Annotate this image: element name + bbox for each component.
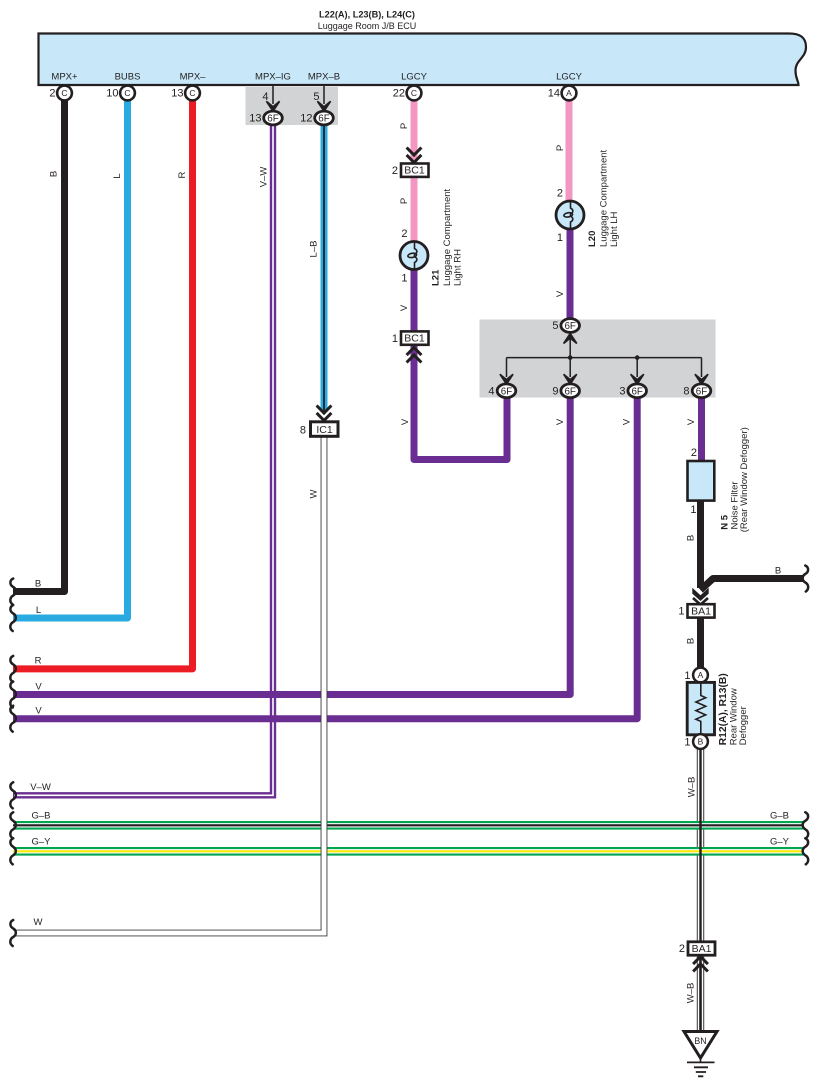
page-edge break of wire L: [10, 605, 16, 631]
svg-text:MPX–B: MPX–B: [308, 72, 340, 83]
svg-text:P: P: [399, 198, 410, 204]
pin 2 (C) of ECU: [49, 86, 72, 101]
svg-text:12: 12: [300, 113, 312, 125]
page-edge break of wire W: [10, 920, 16, 946]
wire P from LGCY 22 through BC1 to bulb L21: [411, 99, 418, 243]
svg-text:C: C: [411, 88, 417, 98]
svg-text:2: 2: [392, 165, 398, 177]
wire W-B center stripe redrawn over green crossings: [699, 749, 701, 943]
page-edge break of wire V (pin 9): [10, 682, 16, 708]
svg-text:13: 13: [171, 88, 183, 100]
defogger terminal A: [684, 668, 708, 683]
label V to pin 4: [400, 418, 411, 425]
connector 8 IC1: [300, 422, 338, 437]
node 4 (6F): [488, 384, 515, 398]
svg-text:V: V: [35, 682, 42, 693]
svg-text:22: 22: [393, 88, 405, 100]
svg-text:MPX+: MPX+: [51, 72, 78, 83]
svg-text:A: A: [698, 670, 704, 680]
svg-text:G–Y: G–Y: [770, 836, 790, 847]
wire V-W (violet-white) from 6F pin 13 down and left to page edge: [13, 120, 273, 795]
label R (MPX- wire): [177, 171, 188, 178]
svg-text:LGCY: LGCY: [556, 72, 583, 83]
svg-text:Light LH: Light LH: [609, 211, 620, 247]
svg-text:B: B: [698, 737, 704, 747]
label V below L21: [399, 304, 410, 311]
component name L21: [431, 269, 442, 286]
svg-text:(Rear Window Defogger): (Rear Window Defogger): [739, 427, 750, 532]
page-edge break of wire G-Y right: [803, 838, 809, 864]
wire P from LGCY 14 to bulb L20: [566, 99, 573, 203]
label B above BA1: [686, 535, 697, 541]
pin 14 (A) of ECU: [548, 86, 577, 101]
svg-text:BA1: BA1: [691, 605, 711, 617]
svg-text:L22(A), L23(B), L24(C): L22(A), L23(B), L24(C): [319, 10, 415, 20]
bulb L20 Luggage Compartment Light LH: [556, 201, 584, 229]
wire W (white) from IC1 down and left to page edge: [13, 436, 324, 933]
wire V from 6F pin 3 down and left to page edge: [13, 398, 637, 719]
svg-text:W–B: W–B: [687, 777, 698, 798]
node 5 (6F) of middle panel: [552, 319, 579, 333]
svg-text:MPX–: MPX–: [180, 72, 207, 83]
component name N5: [719, 514, 730, 530]
svg-text:BC1: BC1: [404, 333, 425, 345]
rear window defogger R12(A), R13(B): [687, 682, 714, 734]
label W vertical: [309, 489, 320, 498]
pin 5 lead into junction connector: [313, 85, 330, 111]
node 9 (6F): [552, 384, 579, 398]
pin 10 (C) of ECU: [106, 86, 135, 101]
bus line inside middle panel: [500, 332, 708, 384]
svg-text:W: W: [309, 489, 320, 498]
svg-text:V–W: V–W: [30, 782, 51, 793]
svg-text:4: 4: [488, 386, 494, 398]
ground symbol: [687, 1058, 715, 1076]
label B below BA1: [686, 638, 697, 644]
wire V from bulb L20 to 6F pin 5: [567, 228, 574, 318]
svg-text:V: V: [35, 706, 42, 717]
component name L20: [587, 231, 598, 247]
label P lower (L21): [399, 198, 410, 204]
svg-text:P: P: [555, 145, 566, 151]
junction dot at 9 branch: [568, 355, 573, 360]
pin 22 (C) of ECU: [393, 86, 422, 101]
wire G-Y across page: [13, 847, 803, 856]
svg-text:R: R: [177, 171, 188, 178]
svg-text:2: 2: [679, 943, 685, 955]
wire B from BA1 to defogger terminal A: [697, 618, 704, 669]
svg-text:W–B: W–B: [686, 983, 697, 1004]
label L (BUBS wire): [112, 173, 123, 178]
svg-text:Light RH: Light RH: [452, 249, 463, 286]
wire W-B from BA1 (2) to ground BN: [697, 955, 704, 1032]
label L-B vertical: [309, 241, 320, 258]
svg-text:LGCY: LGCY: [401, 72, 428, 83]
svg-text:1: 1: [684, 737, 690, 749]
svg-text:C: C: [61, 88, 67, 98]
bulb L21 Luggage Compartment Light RH: [400, 242, 428, 270]
svg-text:R: R: [35, 656, 42, 667]
junction block internal panel (top, MPX-IG/MPX-B): [246, 87, 339, 125]
svg-text:B: B: [775, 566, 781, 577]
connector arrows out of 2 BA1: [693, 957, 708, 972]
label V above pin 5: [555, 290, 566, 297]
svg-text:BC1: BC1: [404, 165, 425, 177]
svg-text:L20: L20: [587, 231, 598, 247]
svg-text:B: B: [49, 171, 60, 177]
svg-text:V: V: [400, 418, 411, 425]
connector arrows into 8 IC1: [317, 406, 332, 421]
svg-text:B: B: [35, 579, 41, 590]
label V below pin 8: [686, 418, 697, 425]
svg-text:2: 2: [401, 228, 407, 240]
svg-text:V: V: [555, 290, 566, 297]
wire V from 6F pin 8 to noise filter N5: [698, 398, 705, 462]
connector 12 (6F): [300, 111, 333, 125]
wire R from MPX- down and left to page edge: [13, 99, 193, 669]
connector 1 BC1: [392, 331, 429, 344]
svg-text:W: W: [34, 917, 43, 928]
svg-text:G–Y: G–Y: [31, 836, 51, 847]
svg-text:BUBS: BUBS: [115, 72, 141, 83]
svg-text:BA1: BA1: [692, 943, 712, 955]
svg-text:V–W: V–W: [259, 167, 270, 188]
svg-text:8: 8: [683, 386, 689, 398]
page-edge break of wire G-Y left: [10, 838, 16, 864]
pin 4 lead into junction connector: [262, 85, 279, 111]
svg-text:1: 1: [690, 504, 696, 516]
label W-B above 2 BA1: [687, 777, 698, 798]
wire B from MPX+ down and left to page edge: [13, 99, 65, 592]
label V-W vertical: [259, 167, 270, 188]
junction dot at 3 branch: [635, 355, 640, 360]
svg-text:2: 2: [49, 88, 55, 100]
svg-text:V: V: [686, 418, 697, 425]
svg-text:14: 14: [548, 88, 560, 100]
wire V from bulb L21 through BC1 to 6F pin 4: [414, 268, 507, 460]
wire G-B across page: [13, 821, 803, 830]
svg-text:Luggage Room J/B ECU: Luggage Room J/B ECU: [318, 21, 417, 31]
svg-text:10: 10: [106, 88, 118, 100]
svg-text:V: V: [399, 304, 410, 311]
connector 2 BC1: [392, 164, 429, 178]
svg-text:Defogger: Defogger: [738, 706, 749, 745]
page-edge break of wire V (pin 3): [10, 706, 16, 732]
label B (MPX+ wire): [49, 171, 60, 177]
svg-text:A: A: [566, 88, 572, 98]
svg-text:3: 3: [619, 386, 625, 398]
defogger terminal B: [684, 734, 708, 749]
label P upper (L21): [399, 123, 410, 129]
component name R12: [718, 673, 729, 745]
wire B from noise filter N5 to BA1: [697, 500, 704, 589]
svg-text:1: 1: [678, 606, 684, 618]
connector arrows into 1 BA1 (wire end): [692, 588, 708, 605]
label V below pin 9: [555, 418, 566, 425]
svg-text:P: P: [399, 123, 410, 129]
svg-text:L21: L21: [431, 269, 442, 286]
svg-text:1: 1: [401, 273, 407, 285]
svg-text:B: B: [686, 638, 697, 644]
page-edge break of wire V-W: [10, 782, 16, 808]
svg-text:1: 1: [392, 333, 398, 345]
svg-text:MPX–IG: MPX–IG: [255, 72, 291, 83]
label V below pin 3: [622, 418, 633, 425]
noise filter N5 (Rear Window Defogger): [688, 461, 715, 501]
ECU block L22(A), L23(B), L24(C) Luggage Room J/B ECU: [39, 34, 807, 86]
wire L from BUBS down and left to page edge: [13, 99, 128, 618]
svg-text:L: L: [112, 173, 123, 178]
page-edge break of wire B: [10, 579, 16, 605]
wire L-B (blue-black) from 6F pin 12 down to IC1: [321, 120, 328, 412]
svg-text:G–B: G–B: [31, 810, 50, 821]
svg-text:2: 2: [557, 188, 563, 200]
pin 13 (C) of ECU: [171, 86, 200, 101]
wire B branch to right page edge: [701, 579, 804, 591]
connector 13 (6F): [249, 111, 282, 125]
svg-text:C: C: [124, 88, 130, 98]
svg-text:V: V: [555, 418, 566, 425]
svg-text:IC1: IC1: [316, 424, 333, 436]
svg-text:R12(A), R13(B): R12(A), R13(B): [718, 673, 729, 745]
connector 1 BA1: [678, 604, 714, 617]
label P (L20): [555, 145, 566, 151]
node 8 (6F): [683, 384, 710, 398]
svg-text:BN: BN: [694, 1036, 706, 1046]
connector arrows out of 1 BC1: [407, 348, 422, 363]
svg-text:5: 5: [552, 320, 558, 332]
svg-text:G–B: G–B: [770, 810, 789, 821]
page-edge break of wire R: [10, 656, 16, 682]
svg-text:13: 13: [249, 113, 261, 125]
junction block internal panel (middle, 6F bus): [480, 320, 716, 398]
ground point BN: [684, 1032, 717, 1059]
svg-text:1: 1: [557, 232, 563, 244]
node 3 (6F): [619, 384, 646, 398]
svg-text:B: B: [686, 535, 697, 541]
wire V from 6F pin 9 down and left to page edge: [13, 398, 570, 695]
page-edge break of wire B right: [803, 566, 809, 592]
svg-text:4: 4: [262, 91, 268, 103]
svg-text:9: 9: [552, 386, 558, 398]
connector arrows into 2 BC1: [407, 148, 422, 163]
svg-text:C: C: [189, 88, 195, 98]
svg-text:Luggage Compartment: Luggage Compartment: [599, 149, 610, 247]
svg-text:V: V: [622, 418, 633, 425]
page-edge break of wire G-B left: [10, 812, 16, 838]
label W-B below 2 BA1: [686, 983, 697, 1004]
svg-text:5: 5: [313, 91, 319, 103]
svg-text:8: 8: [300, 425, 306, 437]
svg-text:2: 2: [691, 447, 697, 459]
page-edge break of wire G-B right: [803, 812, 809, 838]
svg-text:1: 1: [684, 670, 690, 682]
wire W-B from defogger terminal B to BA1 (2): [697, 749, 704, 943]
svg-text:L–B: L–B: [309, 241, 320, 258]
svg-text:L: L: [36, 605, 41, 616]
connector 2 BA1: [679, 942, 715, 955]
